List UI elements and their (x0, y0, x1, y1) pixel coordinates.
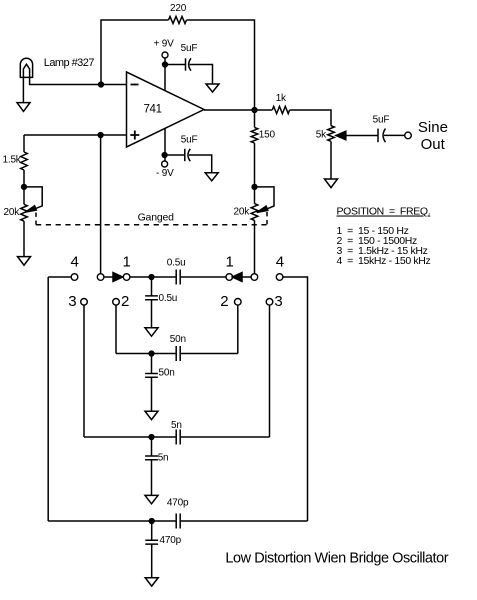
svg-text:Out: Out (421, 136, 446, 153)
ground under C7 (145, 411, 158, 419)
wire cap to output terminal (384, 134, 405, 136)
svg-text:50n: 50n (170, 334, 186, 345)
wire left pot to ground (23, 221, 25, 257)
terminal contact 1 left (123, 274, 130, 281)
svg-text:50n: 50n (159, 367, 175, 378)
wiper arrow left pole (113, 273, 123, 282)
wire V- rail from op-amp bottom edge (164, 128, 166, 160)
potentiometer R 5k body (328, 126, 335, 142)
svg-text:POSITION = FREQ.: POSITION = FREQ. (337, 206, 431, 218)
terminal contact 2 right (235, 299, 242, 306)
svg-text:0.5u: 0.5u (167, 257, 186, 268)
wiper arrowhead right 20k (257, 206, 268, 212)
wire op-amp output (204, 109, 255, 111)
wire contact1 to cap C4 (130, 276, 176, 278)
wire shunt cap to ground (151, 460, 153, 496)
ground under C5 (145, 328, 158, 336)
wire contact 3 right down (269, 305, 271, 437)
wire node G down to shunt cap (151, 437, 153, 456)
ganged dashed riser left (35, 213, 37, 225)
wire noninverting input (24, 134, 127, 136)
svg-text:5uF: 5uF (181, 43, 198, 54)
wire feedback top: from node A up and across to output column (101, 20, 169, 85)
capacitor C6 50n plates (176, 346, 180, 361)
ganged dashed riser right (266, 212, 268, 225)
terminal pole left (97, 274, 104, 281)
terminal +9V (162, 52, 168, 58)
terminal pole right (251, 274, 258, 281)
wire row 50n left (116, 353, 176, 355)
potentiometer R 20k left body (21, 204, 28, 221)
wire right pot to switch pole (254, 220, 256, 273)
node D junction (22, 185, 27, 190)
wire right column position 4 (283, 277, 308, 521)
svg-text:0.5u: 0.5u (159, 293, 178, 304)
svg-text:470p: 470p (160, 535, 182, 546)
terminal contact 2 left (113, 299, 120, 306)
terminal contact 4 left (71, 274, 78, 281)
svg-text:+ 9V: + 9V (154, 39, 175, 50)
terminal contact 1 right (226, 274, 233, 281)
resistor R 150 body (251, 128, 258, 144)
capacitor C11 470p shunt plates (145, 540, 158, 544)
svg-text:3: 3 (68, 293, 76, 310)
svg-text:5n: 5n (171, 420, 182, 431)
wire cap C4 to contact 1 right (180, 276, 226, 278)
capacitor C3 curved plate (383, 129, 385, 143)
svg-text:1.5k: 1.5k (3, 155, 22, 166)
capacitor C5 0.5u shunt plates (145, 296, 158, 300)
capacitor C1 5uF plate (185, 58, 187, 70)
wire row 50n right (180, 353, 238, 355)
node H junction (149, 519, 154, 524)
wire left column position 4 (47, 277, 49, 521)
svg-text:4 = 15kHz - 150 kHz: 4 = 15kHz - 150 kHz (337, 255, 431, 267)
wiper arrow of 5k pot (346, 135, 379, 137)
wire 5k bottom to ground (330, 141, 332, 179)
svg-text:5n: 5n (158, 452, 169, 463)
wire contact 2 right down (237, 305, 239, 353)
node F junction (149, 351, 154, 356)
wire shunt cap to ground (151, 300, 153, 328)
wire contact 2 left down (115, 305, 117, 353)
ground under C9 (145, 495, 158, 503)
capacitor C10 470p plates (176, 514, 180, 529)
node A junction (inverting input net) (99, 82, 104, 87)
svg-text:Ganged: Ganged (138, 212, 175, 224)
wire node B down to switch pole (100, 135, 102, 274)
svg-text:Lamp #327: Lamp #327 (44, 57, 95, 69)
capacitor C9 5n shunt plates (145, 456, 158, 460)
wire node E down to shunt cap (151, 277, 153, 296)
node V+ junction (163, 62, 168, 67)
wire 1k to pot 5k (290, 110, 331, 126)
capacitor C2 5uF plate (184, 149, 186, 161)
wire 1.5k to node D (23, 170, 25, 187)
capacitor C7 50n shunt plates (145, 374, 158, 378)
terminal contact 3 right (266, 299, 273, 306)
wire shunt cap to ground (151, 377, 153, 411)
wire contact 3 left down (83, 305, 85, 437)
wire row 470p right (180, 520, 307, 522)
node B junction (noninverting input net) (98, 133, 103, 138)
wire row 470p left (48, 520, 176, 522)
wire shunt cap to ground (151, 544, 153, 578)
svg-text:3: 3 (274, 293, 282, 310)
ground V+ bypass (206, 84, 219, 92)
svg-text:1: 1 (123, 254, 131, 271)
ground V- bypass (205, 173, 218, 181)
wire V+ to bypass cap (165, 64, 186, 66)
wire cap to ground (189, 155, 212, 173)
svg-text:2: 2 (121, 293, 129, 310)
svg-text:220: 220 (170, 3, 187, 14)
svg-text:150: 150 (259, 129, 276, 140)
svg-text:1k: 1k (276, 93, 287, 104)
op-amp minus sign (131, 84, 139, 86)
svg-text:4: 4 (71, 254, 79, 271)
node V- junction (162, 153, 167, 158)
resistor R 220 (169, 16, 187, 23)
wiper arrow right pole (232, 273, 242, 282)
terminal -9V (162, 161, 168, 167)
lamp filament (23, 64, 29, 77)
svg-text:5uF: 5uF (181, 135, 198, 146)
terminal contact 4 right (276, 274, 283, 281)
svg-text:20k: 20k (4, 207, 21, 218)
wire node F down to shunt cap (151, 354, 153, 374)
resistor R 1.5k top lead (23, 135, 25, 152)
potentiometer R 20k left body lead (23, 187, 25, 204)
svg-text:741: 741 (144, 104, 162, 116)
resistor R 1.5k body (21, 152, 28, 170)
svg-text:5uF: 5uF (373, 115, 390, 126)
svg-text:4: 4 (276, 254, 284, 271)
svg-text:2: 2 (220, 293, 228, 310)
wire lamp left lead to ground (22, 77, 24, 102)
wire V- to bypass cap (165, 154, 185, 156)
wire right pot wiper tap (255, 187, 275, 211)
terminal contact 3 left (81, 299, 88, 306)
svg-text:20k: 20k (234, 207, 251, 218)
capacitor C8 5n plates (176, 430, 180, 445)
wire cap to ground (190, 65, 213, 85)
potentiometer R 20k right body lead (254, 187, 256, 204)
ground under C11 (145, 578, 158, 586)
wire V+ rail from op-amp top edge (164, 58, 166, 91)
capacitor C1 curved plate (189, 58, 191, 70)
ganged dashed link (36, 224, 267, 226)
terminal Sine Out (405, 132, 412, 139)
wire row 5n left (84, 436, 176, 438)
wire left pot wiper tap (24, 187, 42, 211)
node G junction (149, 435, 154, 440)
capacitor C4 0.5u plates (176, 270, 180, 285)
svg-text:Low Distortion Wien Bridge Osc: Low Distortion Wien Bridge Oscillator (225, 551, 448, 567)
svg-text:1: 1 (226, 254, 234, 271)
ground under 5k (325, 179, 338, 188)
node output junction (252, 108, 257, 113)
wire output to R 1k (255, 109, 273, 111)
op-amp plus sign (130, 131, 139, 140)
wire arrow to right pole (242, 276, 251, 278)
ground under lamp (17, 103, 30, 112)
node E junction (149, 275, 154, 280)
op-amp U1 741 triangle (127, 72, 205, 147)
potentiometer R 20k right body (251, 204, 258, 221)
svg-text:Sine: Sine (418, 119, 448, 136)
wiper arrowhead left 20k (25, 206, 36, 212)
lamp DS1 Lamp #327 envelope (20, 58, 32, 77)
wire node H down to shunt cap (151, 521, 153, 540)
wire top right to output column (187, 20, 255, 110)
wire switch row1 left arm (48, 276, 71, 278)
svg-text:5k: 5k (316, 130, 327, 141)
resistor R 150 top lead (254, 110, 256, 128)
capacitor C2 curved plate (188, 149, 190, 161)
capacitor C3 5uF output plate (377, 129, 379, 143)
svg-text:470p: 470p (167, 498, 189, 509)
wire pole to wiper arrow (104, 276, 113, 278)
ground under left 20k (18, 257, 31, 266)
wire lamp right lead to node A (30, 77, 127, 84)
node C junction (252, 185, 257, 190)
wire row 5n right (180, 436, 269, 438)
wire 150 to node C (254, 143, 256, 187)
svg-text:- 9V: - 9V (156, 168, 174, 179)
resistor R 1k (272, 106, 289, 113)
